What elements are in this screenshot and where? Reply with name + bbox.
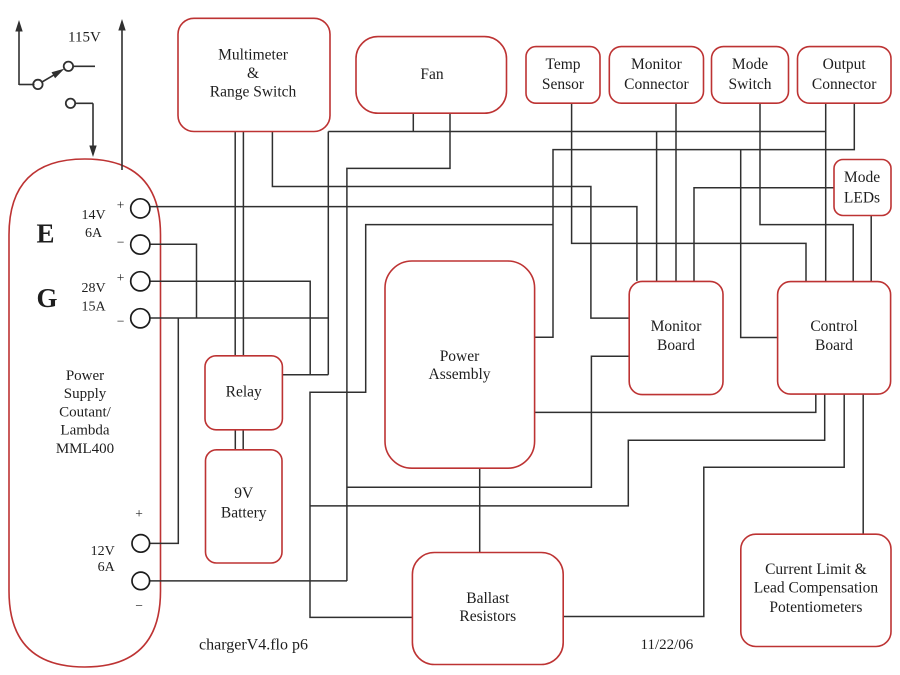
svg-text:MML400: MML400 xyxy=(56,441,114,457)
wire relay right pin to vertical bus xyxy=(282,374,328,376)
svg-text:+: + xyxy=(135,506,143,521)
svg-text:Coutant/: Coutant/ xyxy=(59,404,111,420)
wire from circle B right xyxy=(73,65,95,67)
svg-text:−: − xyxy=(135,598,143,613)
svg-text:Power: Power xyxy=(66,368,104,384)
svg-text:−: − xyxy=(117,314,125,329)
wire output connector pin1 down to control board top xyxy=(825,132,827,282)
svg-text:9V: 9V xyxy=(234,485,254,502)
wire control board left pin from output bus xyxy=(741,150,778,338)
wire 12V 6A- terminal right to fan bus xyxy=(150,580,347,582)
svg-text:LEDs: LEDs xyxy=(844,189,880,206)
box temp sensor xyxy=(526,47,600,104)
wire 28V+ terminal right then down to relay line xyxy=(150,281,310,374)
svg-text:Output: Output xyxy=(823,56,867,73)
switch throw contact circle B xyxy=(64,62,73,71)
switch blade with arrowhead xyxy=(42,69,65,82)
box fan xyxy=(356,37,507,114)
wire 14V+ to monitor board: horizontal then down xyxy=(150,207,637,281)
terminal circle 15A- xyxy=(131,309,150,328)
svg-text:Resistors: Resistors xyxy=(459,608,516,625)
wire mode switch pin down right down to control board top xyxy=(760,103,853,281)
box multimeter and range switch xyxy=(178,18,330,131)
svg-text:Temp: Temp xyxy=(545,56,580,73)
svg-text:6A: 6A xyxy=(85,226,103,241)
wire 115V line-1 vertical with up arrow xyxy=(15,20,34,85)
wire relay bottom pin1 to battery xyxy=(234,430,236,450)
svg-text:Potentiometers: Potentiometers xyxy=(769,599,862,616)
box current limit potentiometers xyxy=(741,534,891,646)
terminal circle 12V+ xyxy=(132,535,150,553)
svg-text:Monitor: Monitor xyxy=(631,56,683,73)
svg-text:Connector: Connector xyxy=(624,76,689,93)
wire fan pin2 down left down to 12V 6A- line xyxy=(347,113,450,581)
svg-text:Lambda: Lambda xyxy=(60,423,109,439)
svg-text:Supply: Supply xyxy=(64,386,107,402)
svg-text:Board: Board xyxy=(657,337,695,354)
wire power assembly bottom pin to ballast top xyxy=(479,468,481,552)
switch pole contact circle A xyxy=(33,80,42,89)
box monitor board xyxy=(629,281,723,394)
box relay xyxy=(205,356,282,430)
svg-text:12V: 12V xyxy=(91,544,115,559)
box control board xyxy=(778,282,891,395)
svg-text:14V: 14V xyxy=(81,208,105,223)
terminal circle 14V+ xyxy=(131,199,150,218)
wire monitor board top pin2 from top bus xyxy=(656,132,658,282)
wire mode LEDs left pin line from monitor top pin xyxy=(694,188,834,282)
terminal circle 6A- xyxy=(131,235,150,254)
wire power assembly right pin2 to control board P1 xyxy=(535,394,816,412)
wire output connector pin2 down then left xyxy=(535,103,855,337)
wire top bus y=131.5 to output connector pin1 xyxy=(328,103,825,131)
switch throw contact circle C xyxy=(66,99,75,108)
svg-text:Board: Board xyxy=(815,337,853,354)
svg-text:Mode: Mode xyxy=(844,169,880,186)
svg-text:chargerV4.flo p6: chargerV4.flo p6 xyxy=(199,637,308,654)
wire 6A- terminal right then down xyxy=(150,244,197,318)
wire long vertical with up arrow into power supply xyxy=(118,19,125,170)
wire mode LEDs bottom pin to control board top xyxy=(870,216,872,282)
power supply stadium outline xyxy=(9,159,161,667)
svg-text:Range Switch: Range Switch xyxy=(210,84,297,101)
svg-text:Connector: Connector xyxy=(812,76,877,93)
svg-text:G: G xyxy=(37,283,58,313)
svg-text:Assembly: Assembly xyxy=(429,366,491,383)
svg-text:Mode: Mode xyxy=(732,56,768,73)
wire 15A- terminal right to vertical bus xyxy=(150,317,328,319)
box power assembly xyxy=(385,261,535,468)
box mode LEDs xyxy=(834,160,891,216)
svg-text:28V: 28V xyxy=(81,281,105,296)
wire monitor board left pin2 down to H-A xyxy=(347,356,629,487)
svg-text:Sensor: Sensor xyxy=(542,76,585,93)
box ballast resistors xyxy=(412,553,563,665)
svg-text:115V: 115V xyxy=(68,30,101,46)
box mode switch xyxy=(712,47,789,104)
wire temp sensor pin down then right joining 14V line xyxy=(572,103,806,281)
wire multimeter pin1 to relay top xyxy=(234,132,236,356)
svg-text:+: + xyxy=(117,198,125,213)
svg-text:15A: 15A xyxy=(81,299,106,314)
wire multimeter pin2 to relay top xyxy=(242,132,244,356)
wire 12V+ terminal right then up to 15A line xyxy=(150,318,178,543)
svg-text:+: + xyxy=(117,270,125,285)
wire monitor connector pin down to monitor board top xyxy=(675,103,677,281)
svg-text:11/22/06: 11/22/06 xyxy=(641,637,694,653)
svg-text:E: E xyxy=(37,219,55,249)
terminal circle 28V+ xyxy=(131,272,150,291)
box output connector xyxy=(798,47,892,104)
svg-text:Relay: Relay xyxy=(226,384,262,401)
box 9V battery xyxy=(206,450,283,563)
svg-text:Power: Power xyxy=(440,348,480,365)
wire control board P3 to ballast right pin xyxy=(563,394,844,616)
wire from circle C to power supply with down arrow xyxy=(75,103,97,157)
svg-text:Fan: Fan xyxy=(420,66,444,83)
svg-text:Current Limit &: Current Limit & xyxy=(765,561,867,578)
wire multimeter pin3 right then down to monitor board left pin1 xyxy=(272,132,629,319)
wire vertical bus x=328 relay to top bus xyxy=(327,132,329,375)
box monitor connector xyxy=(609,47,703,104)
wire relay bottom pin2 to battery xyxy=(242,430,244,450)
svg-text:Control: Control xyxy=(810,318,857,335)
svg-text:Multimeter: Multimeter xyxy=(218,47,289,64)
wire H-B staircase control board P2 xyxy=(310,394,825,506)
svg-text:−: − xyxy=(117,235,125,250)
svg-text:Switch: Switch xyxy=(728,76,771,93)
wire zigzag net y=224.5 to x=553 bus xyxy=(310,225,553,618)
wire control board P4 to current limit top xyxy=(862,394,864,534)
svg-text:&: & xyxy=(247,65,259,82)
svg-text:Monitor: Monitor xyxy=(651,318,703,335)
svg-text:Lead Compensation: Lead Compensation xyxy=(754,580,879,597)
wire fan pin1 to top bus xyxy=(412,113,414,131)
svg-text:Ballast: Ballast xyxy=(466,590,510,607)
svg-text:Battery: Battery xyxy=(221,505,267,522)
terminal circle 12V 6A- xyxy=(132,572,150,590)
svg-text:6A: 6A xyxy=(98,560,116,575)
